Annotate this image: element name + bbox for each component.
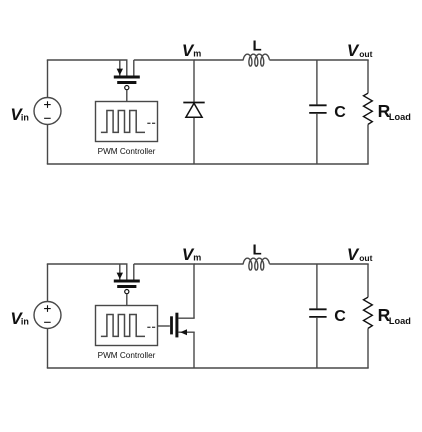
svg-text:V: V [347, 41, 360, 60]
resistor R_Load [364, 297, 373, 328]
wire top rail from Q to node Vm [134, 263, 195, 265]
svg-text:out: out [359, 49, 372, 59]
wire top rail left segment [47, 59, 128, 61]
wire node Vm to inductor [194, 59, 244, 61]
wire resistor down to bottom rail [367, 328, 369, 368]
wire top rail left segment [47, 263, 128, 265]
PWM square waveform inside U1 [101, 111, 145, 133]
label Vin [10, 309, 29, 328]
wire from Vin- down to bottom rail [47, 125, 49, 165]
PWM controller box U1 [96, 102, 158, 142]
node Vout label [347, 245, 373, 264]
node Vm label [182, 41, 201, 60]
svg-text:in: in [21, 317, 29, 327]
svg-text:L: L [253, 241, 262, 258]
wire capacitor down to bottom rail [316, 114, 318, 164]
node Vm label [182, 245, 201, 264]
wire bottom rail [47, 367, 369, 369]
wire top rail down to capacitor [316, 60, 318, 104]
wire gate of Q to PWM controller [126, 294, 128, 306]
svg-text:V: V [347, 245, 360, 264]
wire top rail from Q to node Vm [134, 59, 195, 61]
voltage source Vin (circuit 2) [34, 302, 61, 329]
wire diode anode down to bottom rail [193, 118, 195, 164]
wire NMOS source down to bottom rail [193, 332, 195, 368]
wire inductor to node Vout [269, 263, 368, 265]
wire from Vin+ up to top rail [47, 264, 49, 302]
wire node Vout down to resistor [367, 264, 369, 297]
wire inductor to node Vout [269, 59, 368, 61]
node Vout label [347, 41, 373, 60]
inductor L [243, 54, 269, 66]
label Vin [10, 105, 29, 124]
wire from Vin- down to bottom rail [47, 329, 49, 369]
label R_Load [378, 305, 411, 326]
wire node Vm down to NMOS drain [193, 264, 195, 318]
wire node Vm down to diode cathode [193, 60, 195, 102]
wire bottom rail [47, 163, 369, 165]
svg-text:out: out [359, 253, 372, 263]
diode D1 (freewheeling) [183, 103, 204, 118]
svg-text:C: C [334, 308, 346, 325]
NMOS synchronous switch transistor Q2b [172, 313, 195, 338]
voltage source Vin (circuit 1) [34, 98, 61, 125]
wire PWM output to NMOS gate [158, 325, 170, 327]
wire from Vin+ up to top rail [47, 60, 49, 98]
wire capacitor down to bottom rail [316, 318, 318, 368]
svg-text:L: L [253, 37, 262, 54]
svg-text:m: m [193, 49, 201, 59]
inductor L [243, 258, 269, 270]
resistor R_Load [364, 93, 373, 124]
svg-text:Load: Load [389, 316, 411, 326]
wire node Vout down to resistor [367, 60, 369, 93]
svg-text:Load: Load [389, 112, 411, 122]
wire top rail down to capacitor [316, 264, 318, 308]
dashed output stub of U1 [147, 122, 155, 124]
svg-text:m: m [193, 253, 201, 263]
svg-text:in: in [21, 113, 29, 123]
PWM square waveform inside U2 [101, 315, 145, 337]
wire gate of Q to PWM controller [126, 90, 128, 102]
capacitor C [309, 309, 326, 317]
svg-text:PWM Controller: PWM Controller [98, 351, 156, 360]
svg-text:C: C [334, 104, 346, 121]
PMOS switch transistor Q2a [114, 264, 140, 294]
svg-text:PWM Controller: PWM Controller [98, 147, 156, 156]
capacitor C [309, 105, 326, 113]
wire resistor down to bottom rail [367, 124, 369, 164]
PWM controller box U2 [96, 306, 158, 346]
PMOS switch transistor Q1a [114, 60, 140, 90]
dashed output stub of U2 [147, 326, 155, 328]
label R_Load [378, 101, 411, 122]
wire node Vm to inductor [194, 263, 244, 265]
